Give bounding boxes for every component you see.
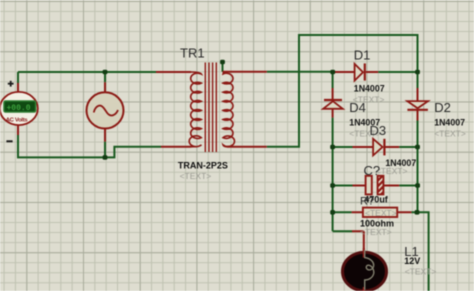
svg-text:1N4007: 1N4007 [434,118,465,128]
svg-text:TR1: TR1 [180,46,205,61]
svg-text:<TEXT>: <TEXT> [376,166,408,176]
svg-text:D2: D2 [434,100,451,115]
svg-text:R?: R? [360,195,374,207]
svg-text:AC Volts: AC Volts [6,117,29,123]
svg-text:<TEXT>: <TEXT> [360,227,392,237]
svg-text:<TEXT>: <TEXT> [405,266,437,276]
svg-text:TRAN-2P2S: TRAN-2P2S [178,161,228,171]
svg-text:<TEXT>: <TEXT> [434,129,466,139]
svg-text:D4: D4 [349,100,366,115]
svg-text:12V: 12V [404,256,420,266]
svg-text:C?: C? [364,163,381,178]
svg-text:1N4007: 1N4007 [354,83,385,93]
svg-text:<TEXT>: <TEXT> [180,171,212,181]
svg-text:<TEXT>: <TEXT> [365,208,397,218]
svg-text:D3: D3 [370,123,387,138]
svg-text:+00.0: +00.0 [7,104,31,113]
svg-text:D1: D1 [354,48,371,63]
